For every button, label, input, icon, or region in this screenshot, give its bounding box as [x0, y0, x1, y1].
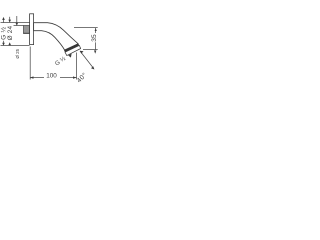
svg-text:35: 35 — [91, 34, 98, 42]
arrow up col2 bottom — [8, 42, 11, 45]
arrow up 35 — [95, 28, 97, 31]
extension line outlet level right — [83, 49, 98, 51]
extension line gray-block top — [14, 25, 24, 27]
stem of third arrow — [16, 16, 18, 23]
thread stub bottom edge — [23, 32, 30, 34]
arrow left 100 — [30, 76, 33, 78]
arrow G half leader — [68, 54, 72, 58]
arrow down col2 — [8, 20, 11, 23]
thread stub gray block — [24, 26, 30, 34]
arrow down third — [16, 23, 19, 26]
outlet snout — [65, 45, 81, 55]
arrow upper end outlet axis — [80, 51, 84, 54]
arrow right 100 — [73, 76, 76, 78]
stem of up arrow col1 — [3, 20, 5, 23]
stem of down arrow col1 bottom — [3, 41, 5, 43]
svg-text:40°: 40° — [75, 71, 89, 85]
arrow down col1 bottom — [2, 43, 5, 46]
shower arm pipe body — [34, 23, 79, 50]
svg-text:G ½: G ½ — [54, 55, 67, 67]
arrow up col1 — [2, 17, 5, 20]
wall flange escutcheon — [30, 14, 34, 45]
outlet axis line 40deg — [80, 51, 94, 69]
vertical extension below outlet — [76, 53, 78, 80]
svg-text:Ø 24: Ø 24 — [7, 25, 14, 40]
wire — [1, 16, 98, 80]
outlet collar band — [64, 43, 79, 52]
svg-text:Ø 25: Ø 25 — [15, 48, 20, 58]
arrow down 35 — [94, 50, 96, 53]
arrow lower end outlet axis — [91, 66, 94, 69]
extension line pipe axis right — [74, 27, 98, 29]
vertical extension below flange — [29, 47, 31, 80]
dimension line 100 right segment — [60, 77, 77, 79]
dimension line 100 left segment — [30, 77, 44, 79]
extension line flange-bottom left — [1, 45, 30, 47]
stem of down arrow col2 — [9, 17, 11, 20]
extension line pipe-top left — [1, 22, 30, 24]
svg-text:100: 100 — [46, 73, 57, 80]
dimension line 35 — [95, 28, 97, 33]
